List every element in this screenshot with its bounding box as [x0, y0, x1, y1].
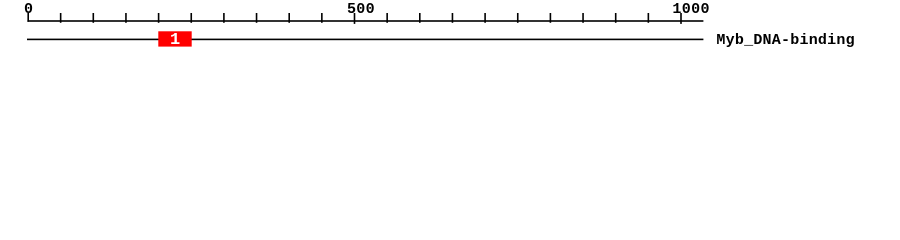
ruler major tick 1000	[680, 13, 682, 24]
ruler axis line	[27, 20, 703, 22]
domain box 1 (red)	[158, 31, 191, 46]
ruler minor ticks 550-950	[386, 13, 649, 23]
svg-text:500: 500	[347, 1, 375, 18]
svg-text:0: 0	[24, 1, 33, 18]
svg-text:1000: 1000	[672, 1, 709, 18]
ruler minor ticks 50-450	[60, 13, 323, 23]
ruler major tick 500	[354, 13, 356, 24]
svg-text:1: 1	[170, 31, 180, 50]
ruler tick 0	[27, 13, 29, 22]
svg-text:Myb_DNA-binding: Myb_DNA-binding	[716, 32, 854, 49]
sequence line	[27, 39, 703, 41]
background	[0, 0, 900, 58]
